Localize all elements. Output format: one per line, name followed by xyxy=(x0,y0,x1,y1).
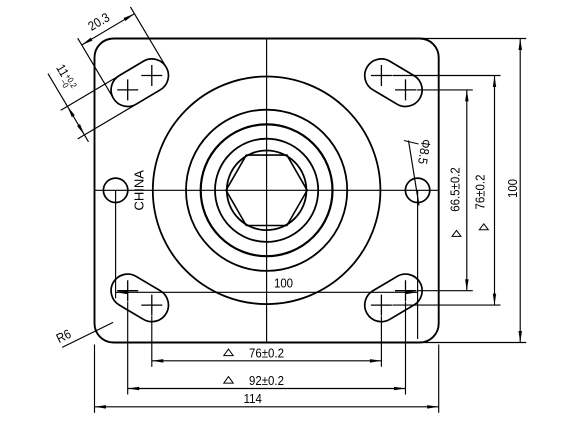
plate outline (114x100 rounded square, R6 corners) xyxy=(95,39,439,343)
svg-text:114: 114 xyxy=(244,391,262,406)
triangle mark for 66.5 right dim xyxy=(452,230,461,236)
extension lines from side holes down to 100 dim line xyxy=(116,190,418,339)
svg-text:100: 100 xyxy=(505,179,520,198)
bolt slot top-left (11 x 20.3 obround) xyxy=(105,53,175,113)
svg-text:CHINA: CHINA xyxy=(132,170,147,211)
dim line 114 bottom xyxy=(95,406,439,408)
extension lines from bottom slots and plate edge to bottom dim lines xyxy=(95,302,439,413)
dim line 76±0.2 vertical xyxy=(494,76,496,306)
bolt slot top-right (11 x 20.3 obround) xyxy=(359,53,429,113)
phi8.5 leader line xyxy=(409,141,420,206)
R6 leader line xyxy=(62,322,113,347)
center cross inner bolt hole bottom-right xyxy=(371,295,392,316)
circle C5 hex chamfer circle xyxy=(227,151,307,231)
center cross outer bolt hole top-right xyxy=(395,79,416,100)
svg-text:20.3: 20.3 xyxy=(85,10,112,34)
triangle mark for 76 bottom dim xyxy=(224,349,233,356)
svg-text:76±0.2: 76±0.2 xyxy=(249,346,284,361)
svg-text:76±0.2: 76±0.2 xyxy=(473,174,488,209)
dim line 11 xyxy=(48,74,89,142)
svg-text:100: 100 xyxy=(274,276,293,291)
vertical centerline xyxy=(266,39,268,343)
hole phi8.5 left xyxy=(103,178,127,202)
center cross inner bolt hole bottom-left xyxy=(141,295,162,316)
dim line 66.5±0.2 vertical xyxy=(466,90,468,291)
hexagon kingpin nut xyxy=(226,155,307,225)
bolt slot bottom-left (11 x 20.3 obround) xyxy=(105,268,175,328)
triangle mark for 76 right dim xyxy=(479,224,488,230)
center cross outer bolt hole bottom-right xyxy=(395,280,416,301)
hole phi8.5 right xyxy=(405,178,429,202)
dim line 100 horizontal between side holes xyxy=(116,291,418,293)
extension lines from right slots and plate edge to right dim lines xyxy=(392,39,526,343)
dim line 100 vertical xyxy=(519,39,521,343)
extension lines for 11 slot width dim (slot side lines extended) xyxy=(61,61,144,139)
center cross inner bolt hole top-left xyxy=(141,65,162,86)
circle C1 outer boss xyxy=(153,77,381,305)
circle C3 xyxy=(201,124,333,256)
dim line 20.3 xyxy=(82,14,135,45)
circle C4 xyxy=(215,139,318,242)
dim line 92±0.2 bottom xyxy=(128,388,406,390)
svg-text:Φ8.5: Φ8.5 xyxy=(415,138,434,165)
center cross outer bolt hole top-left xyxy=(117,79,138,100)
extension lines for 20.3 slot length dim xyxy=(78,7,165,97)
center cross outer bolt hole bottom-left xyxy=(117,280,138,301)
horizontal centerline xyxy=(95,189,439,191)
triangle mark for 92 bottom dim xyxy=(224,377,233,384)
bolt slot bottom-right (11 x 20.3 obround) xyxy=(359,268,429,328)
phi8.5 leader shoulder xyxy=(404,141,419,145)
center cross inner bolt hole top-right xyxy=(371,65,392,86)
circle C2 raceway xyxy=(186,110,347,271)
svg-text:92±0.2: 92±0.2 xyxy=(249,373,284,388)
svg-text:66.5±0.2: 66.5±0.2 xyxy=(448,167,463,212)
svg-text:11+0.2−0: 11+0.2−0 xyxy=(51,62,80,94)
dim line 76±0.2 bottom xyxy=(152,360,382,362)
